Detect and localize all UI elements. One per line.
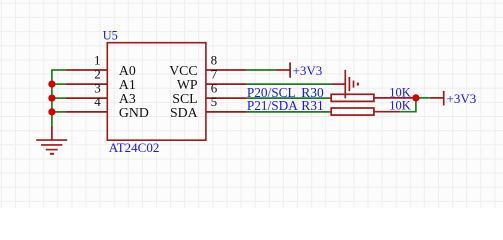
svg-text:+3V3: +3V3 xyxy=(293,63,323,78)
svg-text:R31: R31 xyxy=(301,98,324,113)
svg-text:6: 6 xyxy=(211,80,218,95)
svg-text:SDA: SDA xyxy=(170,105,198,120)
svg-text:P21/SDA: P21/SDA xyxy=(247,98,298,113)
svg-text:10K: 10K xyxy=(389,98,411,112)
svg-text:2: 2 xyxy=(94,66,101,81)
svg-text:1: 1 xyxy=(94,53,101,68)
svg-text:A1: A1 xyxy=(119,77,136,92)
svg-text:GND: GND xyxy=(119,105,149,120)
svg-text:4: 4 xyxy=(94,94,101,109)
svg-text:A0: A0 xyxy=(119,63,136,78)
svg-text:10K: 10K xyxy=(389,85,411,99)
svg-text:AT24C02: AT24C02 xyxy=(109,140,160,155)
svg-text:A3: A3 xyxy=(119,91,136,106)
svg-text:3: 3 xyxy=(94,80,101,95)
svg-text:WP: WP xyxy=(177,77,198,92)
svg-text:+3V3: +3V3 xyxy=(447,91,477,106)
svg-text:U5: U5 xyxy=(103,28,118,42)
svg-text:8: 8 xyxy=(211,53,218,68)
svg-text:SCL: SCL xyxy=(172,91,197,106)
svg-text:VCC: VCC xyxy=(169,63,197,78)
svg-text:7: 7 xyxy=(211,66,218,81)
svg-text:5: 5 xyxy=(211,94,218,109)
